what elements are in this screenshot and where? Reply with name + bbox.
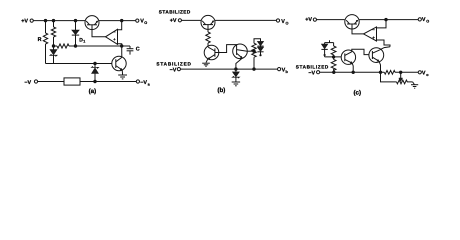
junction dot zener top (b): [235, 68, 237, 70]
svg-text:a: a: [148, 82, 151, 86]
label (b): [217, 87, 225, 94]
op-amp U1 (a): [106, 29, 118, 44]
svg-text:O: O: [144, 21, 147, 25]
zener diode Zb (b): [233, 69, 240, 82]
transistor Q1 (c) pass transistor: [345, 15, 359, 29]
wire op-amp non-inverting input down (c): [377, 40, 391, 47]
svg-text:STABILIZED: STABILIZED: [296, 64, 329, 69]
svg-text:+V: +V: [21, 19, 28, 25]
terminal Vout bottom (c): [418, 71, 421, 74]
junction dot zener Z1 top: [52, 45, 54, 47]
transistor Q3 (b): [233, 44, 248, 59]
wire op-amp non-inverting input down (a): [118, 44, 122, 46]
transistor Q1 (a) pass transistor: [85, 16, 99, 30]
terminal +V (c): [313, 18, 316, 21]
ground Q2 emitter (a): [118, 75, 127, 79]
ground pot (c): [411, 85, 418, 89]
terminal Vo (b): [276, 19, 279, 22]
wire pot loop left (c): [381, 72, 397, 82]
svg-text:−V: −V: [170, 67, 177, 73]
junction dot feedback (c): [385, 18, 387, 20]
wire bottom rail left (a): [38, 81, 64, 83]
junction dot D1 bottom: [74, 45, 76, 47]
wire Q3 collector right (b): [247, 50, 254, 52]
resistor R (a): [43, 21, 47, 64]
wire op-amp inverting input to rail (c): [377, 20, 387, 28]
diode D1 (a): [72, 21, 79, 46]
junction dot R2 bottom (c): [333, 71, 335, 73]
svg-text:−V: −V: [140, 80, 147, 86]
resistor R1 (b): [206, 31, 210, 48]
resistor R2 (c): [331, 57, 336, 72]
zener diode Z2 (a): [92, 64, 99, 82]
junction dot R2 top: [52, 19, 54, 21]
label STABILIZED bottom (c): [296, 64, 329, 69]
wire Q2 emitter down (a): [121, 70, 123, 75]
node -Va label (a): [140, 80, 150, 87]
wire op-amp output to Q1 base (c): [352, 29, 364, 34]
wire pot to ground (c): [413, 82, 415, 85]
op-amp U1 (c): [364, 27, 377, 41]
svg-text:−V: −V: [24, 80, 31, 86]
node Vout label bottom (c): [422, 71, 429, 77]
wire top bar led-resistor (c): [325, 42, 334, 44]
wire bottom rail right (a): [80, 81, 136, 83]
label D1: [79, 37, 85, 43]
wire staple resistor-diode top (b): [254, 39, 261, 43]
stub top bar (c): [329, 40, 331, 42]
resistor R2 (a): [51, 21, 55, 46]
label C: [136, 46, 140, 52]
capacitor C (a): [127, 46, 134, 55]
wire top rail (a): [33, 20, 85, 22]
junction dot Z2 bottom: [94, 80, 96, 82]
wire Q2 collector step to Q3 base (c): [352, 49, 369, 54]
label STABILIZED top (b): [159, 9, 191, 14]
terminal +V (a): [30, 19, 33, 22]
label (c): [354, 90, 362, 97]
wire bottom rail (b): [181, 68, 278, 70]
wire base line to Q2 (c): [325, 56, 342, 58]
wire Q2 collector up (a): [121, 46, 123, 57]
junction dot collector-resistor (b): [253, 50, 255, 52]
wire Q3 emitter down (b): [236, 58, 242, 69]
svg-text:C: C: [136, 46, 140, 52]
label (a): [89, 88, 97, 95]
svg-text:(b): (b): [217, 87, 225, 94]
diode D1 (b): [257, 41, 263, 46]
svg-text:(a): (a): [89, 88, 97, 95]
node Vo label (a): [140, 18, 147, 25]
svg-text:STABILIZED: STABILIZED: [159, 9, 191, 14]
node -V label (c): [308, 70, 315, 76]
diode LED (c): [321, 43, 327, 57]
svg-text:O: O: [286, 21, 289, 25]
wire Q2 base step to Q3 base (b): [215, 45, 237, 53]
wire top rail (b): [182, 19, 202, 21]
wire Q3 emitter down (c): [379, 61, 381, 72]
junction dot zener Z2 top: [94, 62, 96, 64]
terminal Vo (c): [418, 18, 421, 21]
wire Q3 collector to op-amp input wire (c): [380, 47, 390, 50]
svg-text:STABILIZED: STABILIZED: [156, 61, 191, 66]
potentiometer body (c): [397, 80, 413, 84]
svg-text:b: b: [286, 70, 289, 74]
junction dot D1 top: [74, 19, 76, 21]
node Vo label (b): [281, 19, 288, 26]
junction dot output divider (c): [400, 71, 402, 73]
junction dot feedback node (a): [121, 19, 123, 21]
junction dot collector node (a): [121, 45, 123, 47]
wire Q2 emitter to ground (b): [206, 59, 208, 62]
transistor Q2 (a): [112, 56, 126, 70]
transistor Q1 (b) pass transistor: [201, 15, 215, 30]
wire top rail (c): [317, 19, 345, 21]
resistor R1 (c): [331, 43, 336, 57]
junction dot R top: [44, 19, 46, 21]
svg-text:+V: +V: [305, 17, 312, 23]
junction dot resistor bottom (b): [253, 68, 255, 70]
node +V label (a): [21, 19, 28, 25]
svg-text:+V: +V: [170, 18, 177, 24]
junction dot R1 bottom (c): [332, 56, 334, 58]
node -V label (a): [24, 80, 31, 86]
node +V label (c): [305, 17, 312, 23]
terminal Vb (b): [278, 68, 281, 71]
svg-text:1: 1: [83, 40, 85, 44]
junction dot Q2 emitter (c): [352, 71, 354, 73]
label R: [38, 37, 42, 43]
resistor R2 (b): [252, 43, 256, 69]
zener diode Z1 (a): [50, 46, 57, 64]
terminal +V (b): [178, 19, 181, 22]
label STABILIZED bottom (b): [156, 61, 191, 66]
node Vo label (c): [422, 17, 429, 23]
wire top rail right (a): [99, 20, 136, 22]
svg-text:(c): (c): [354, 90, 362, 97]
ground zener (b): [232, 82, 240, 86]
terminal -V (c): [317, 71, 320, 74]
svg-text:O: O: [426, 20, 429, 24]
reference line node (a): [54, 44, 131, 48]
wire op-amp inverting input to output node (a): [118, 21, 122, 30]
transistor Q3 (c): [369, 48, 384, 63]
terminal -V (a): [34, 80, 37, 83]
transistor Q2 (c): [341, 50, 355, 64]
node Vb label (b): [282, 68, 289, 75]
node -V label (b): [170, 67, 177, 73]
junction dot Q3 emitter pot tap (c): [379, 71, 381, 73]
transistor Q2 (b): [204, 45, 219, 60]
wire Q2 emitter down (c): [352, 63, 353, 72]
resistor R3 on rail (c): [384, 70, 395, 74]
wire op-amp output to Q1 base (a): [92, 30, 106, 37]
wire rail to terminal (c): [395, 71, 418, 73]
wire top rail right (b): [215, 19, 276, 21]
terminal Vo (a): [136, 19, 139, 22]
potentiometer wiper arrow (c): [399, 72, 403, 81]
ground Q2 emitter (b): [202, 63, 210, 66]
wire base line (a): [46, 63, 113, 65]
diode D2 (b): [257, 46, 263, 56]
terminal -Va (a): [136, 80, 139, 83]
svg-text:o: o: [426, 73, 429, 77]
terminal -V (b): [177, 68, 180, 71]
resistor box (a): [64, 78, 80, 85]
wire bottom rail (c): [320, 71, 385, 73]
svg-text:−V: −V: [308, 70, 315, 76]
wire top rail right (c): [359, 19, 418, 21]
node +V label (b): [170, 18, 177, 24]
svg-text:R: R: [38, 37, 42, 43]
